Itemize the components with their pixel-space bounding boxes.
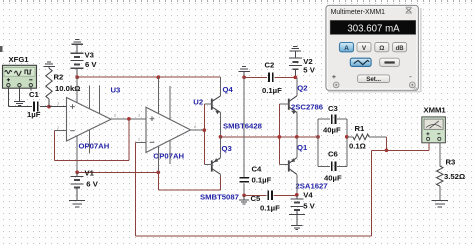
svg-text:0.1µF: 0.1µF <box>260 203 280 212</box>
svg-text:V1: V1 <box>85 169 95 178</box>
node base chain junction <box>277 135 281 139</box>
svg-text:V: V <box>362 45 367 52</box>
battery V2 <box>289 58 302 59</box>
resistor R2 <box>46 68 52 99</box>
svg-text:0.1Ω: 0.1Ω <box>349 141 366 150</box>
node C4 ground junction <box>242 193 246 197</box>
svg-text:C2: C2 <box>265 60 275 69</box>
wire C4 bottom to junction <box>243 183 245 195</box>
node V+ rail junction at V3 <box>75 75 79 79</box>
svg-text:6 V: 6 V <box>85 60 97 69</box>
svg-text:0.1µF: 0.1µF <box>252 176 272 185</box>
svg-text:10.0kΩ: 10.0kΩ <box>55 84 80 93</box>
svg-text:SMBT6428: SMBT6428 <box>223 122 263 131</box>
wire Q3 emitter return to V- rail <box>220 177 222 190</box>
wire V+ rail corner to Q4 collector <box>220 77 222 96</box>
ground below XFG1 <box>14 101 25 102</box>
node V- rail junction at V1 <box>75 170 79 174</box>
U3 bottom NC stub <box>89 130 91 154</box>
transistor Q1 <box>288 160 290 171</box>
node U2 output to driver bases <box>202 128 206 132</box>
button dB <box>393 43 407 52</box>
Multimeter-XMM1 dialog window <box>326 5 422 92</box>
wire U2 output <box>191 129 205 131</box>
node V- rail junction U2 pin 4 <box>156 170 160 174</box>
wire V+ rail <box>77 76 220 78</box>
capacitor C1 <box>33 102 35 112</box>
instrument XFG1 box <box>3 65 37 88</box>
button V <box>357 43 371 52</box>
wire R2 bottom lead <box>48 99 50 107</box>
svg-text:R2: R2 <box>54 73 64 82</box>
wire Q3 collector up <box>220 137 222 158</box>
svg-text:XMM1: XMM1 <box>424 105 447 114</box>
svg-text:+: + <box>332 72 337 81</box>
svg-text:C3: C3 <box>328 104 338 113</box>
left edge toolbar mark <box>0 46 3 52</box>
ground below V4 <box>291 225 303 226</box>
node V4 junction <box>295 193 299 197</box>
node R1 junction <box>345 135 349 139</box>
node A junction R2/C1 <box>47 105 51 109</box>
svg-text:V3: V3 <box>85 51 94 60</box>
wire XFG1 + terminal to input net <box>7 87 9 107</box>
svg-text:Multimeter-XMM1: Multimeter-XMM1 <box>331 9 386 16</box>
ground below V1 <box>69 200 85 201</box>
svg-text:Q2: Q2 <box>297 84 307 93</box>
window resize grip <box>414 87 418 90</box>
button AC selected <box>350 58 371 66</box>
node V+ rail junction U2 pin 7 <box>156 75 160 79</box>
wire driver output line <box>221 136 319 138</box>
XFG1 terminals <box>7 83 10 86</box>
transistor Q4 <box>211 99 213 110</box>
button DC <box>380 58 400 66</box>
svg-text:Ω: Ω <box>379 45 384 52</box>
U3 top NC stubs <box>89 86 91 109</box>
svg-text:Set...: Set... <box>366 76 381 83</box>
wire input to U3 + <box>49 106 67 108</box>
node C2 ground junction <box>242 75 246 79</box>
node sense junction <box>385 148 389 152</box>
wire U3 - input lead <box>55 130 67 132</box>
node output pair junction <box>295 135 299 139</box>
wire V- rail <box>77 171 158 173</box>
wire output base chain <box>278 104 280 164</box>
virtual ground above V2 <box>293 46 297 47</box>
wire XFG1 common terminal <box>18 87 20 101</box>
svg-text:5 V: 5 V <box>303 201 315 210</box>
top edge tick row <box>3 0 472 2</box>
svg-text:OP07AH: OP07AH <box>79 141 110 150</box>
capacitor C5 <box>267 191 269 201</box>
resistor R1 <box>347 136 353 138</box>
svg-text:C4: C4 <box>252 165 263 174</box>
multimeter display <box>330 20 416 34</box>
svg-text:Q4: Q4 <box>223 85 234 94</box>
wire C2 net <box>244 76 267 78</box>
svg-text:40µF: 40µF <box>323 126 341 135</box>
wire R3 to ground <box>439 186 441 200</box>
svg-text:303.607 mA: 303.607 mA <box>347 23 400 34</box>
small ground below C4 junction <box>243 195 245 199</box>
wire Q2 collector up <box>296 77 298 96</box>
wire sense line to XMM1 <box>371 149 429 151</box>
wire ground chain down to C4 <box>243 77 245 177</box>
svg-text:2SC2786: 2SC2786 <box>291 102 323 111</box>
svg-text:40µF: 40µF <box>324 173 342 182</box>
svg-text:2SA1627: 2SA1627 <box>296 181 328 190</box>
virtual ground above R2 <box>47 61 51 62</box>
virtual ground above C2 <box>242 66 246 67</box>
svg-text:V4: V4 <box>303 191 313 200</box>
node V2 junction <box>293 75 297 79</box>
button ohm <box>375 43 389 52</box>
wire driver base chain <box>203 104 205 164</box>
wire V1 to ground <box>76 188 78 200</box>
wire R1 to sense node <box>369 136 387 138</box>
U2 top NC stub <box>169 86 171 120</box>
wire Q3 emitter down <box>220 174 222 190</box>
wire C5 net <box>244 194 266 196</box>
XMM1 terminals <box>427 137 430 140</box>
node driver output junction <box>219 135 223 139</box>
transistor Q2 <box>288 99 290 110</box>
instrument XMM1 box <box>422 117 446 143</box>
svg-text:R3: R3 <box>446 157 456 166</box>
window title-bar icon <box>406 7 413 13</box>
wire XMM1 + terminal <box>428 143 430 150</box>
wire U2 - input lead <box>136 141 147 143</box>
wire U3 feedback loop <box>128 119 130 161</box>
button Set <box>358 75 390 83</box>
virtual ground above V3 <box>75 39 79 40</box>
svg-text:Q1: Q1 <box>297 143 308 152</box>
svg-text:R1: R1 <box>355 124 366 133</box>
svg-text:SMBT5087: SMBT5087 <box>200 193 239 202</box>
U3 pin 7 V+ stub <box>76 77 78 103</box>
svg-text:5 V: 5 V <box>303 65 315 74</box>
U3 pin 4 V- stub <box>76 136 78 173</box>
U2 bottom NC stub <box>169 141 171 165</box>
op-amp U3 <box>67 98 112 142</box>
svg-text:0.1µF: 0.1µF <box>262 86 282 95</box>
svg-text:U3: U3 <box>111 86 121 95</box>
svg-text:6 V: 6 V <box>86 180 98 189</box>
wire capacitor bank left rail <box>317 119 319 166</box>
wire XMM1 - terminal to R3 <box>439 143 441 166</box>
node U3 output <box>127 117 131 121</box>
battery V4 <box>296 195 298 199</box>
ground below R3 <box>431 200 448 201</box>
transistor Q3 <box>211 160 213 171</box>
svg-text:C1: C1 <box>29 90 40 99</box>
multimeter terminal sockets <box>333 82 339 88</box>
button A selected <box>340 43 354 52</box>
svg-text:XFG1: XFG1 <box>9 55 30 64</box>
wire Q4 emitter down <box>220 113 222 137</box>
svg-text:A: A <box>344 45 349 52</box>
wire V4 to ground <box>289 214 305 215</box>
svg-text:Q3: Q3 <box>222 144 232 153</box>
wire Q2 emitter down <box>296 113 298 138</box>
wire capacitor bank right rail <box>346 119 348 166</box>
wire U2 remote feedback <box>135 142 137 236</box>
battery V1 <box>76 172 78 176</box>
node output to capacitor bank <box>316 135 320 139</box>
wire Q1 emitter up <box>296 137 298 158</box>
XFG1 - terminal stub <box>30 87 32 91</box>
wire Q1 collector down <box>296 174 298 195</box>
battery V3 <box>71 53 84 54</box>
wire V3 to V+ rail <box>76 69 78 77</box>
resistor R3 <box>437 166 443 186</box>
wire C1 to node A <box>40 106 67 108</box>
svg-text:dB: dB <box>396 46 405 52</box>
op-amp U2 <box>146 107 191 152</box>
wire U3 output <box>111 118 146 120</box>
svg-text:C6: C6 <box>328 149 338 158</box>
U2 pin 4 V- stub <box>157 146 159 172</box>
wire V2 to C2 net <box>294 70 296 78</box>
svg-text:U2: U2 <box>193 98 203 107</box>
svg-text:1µF: 1µF <box>27 110 41 119</box>
svg-text:3.52Ω: 3.52Ω <box>444 172 465 181</box>
U2 pin 7 V+ stub <box>157 77 159 113</box>
